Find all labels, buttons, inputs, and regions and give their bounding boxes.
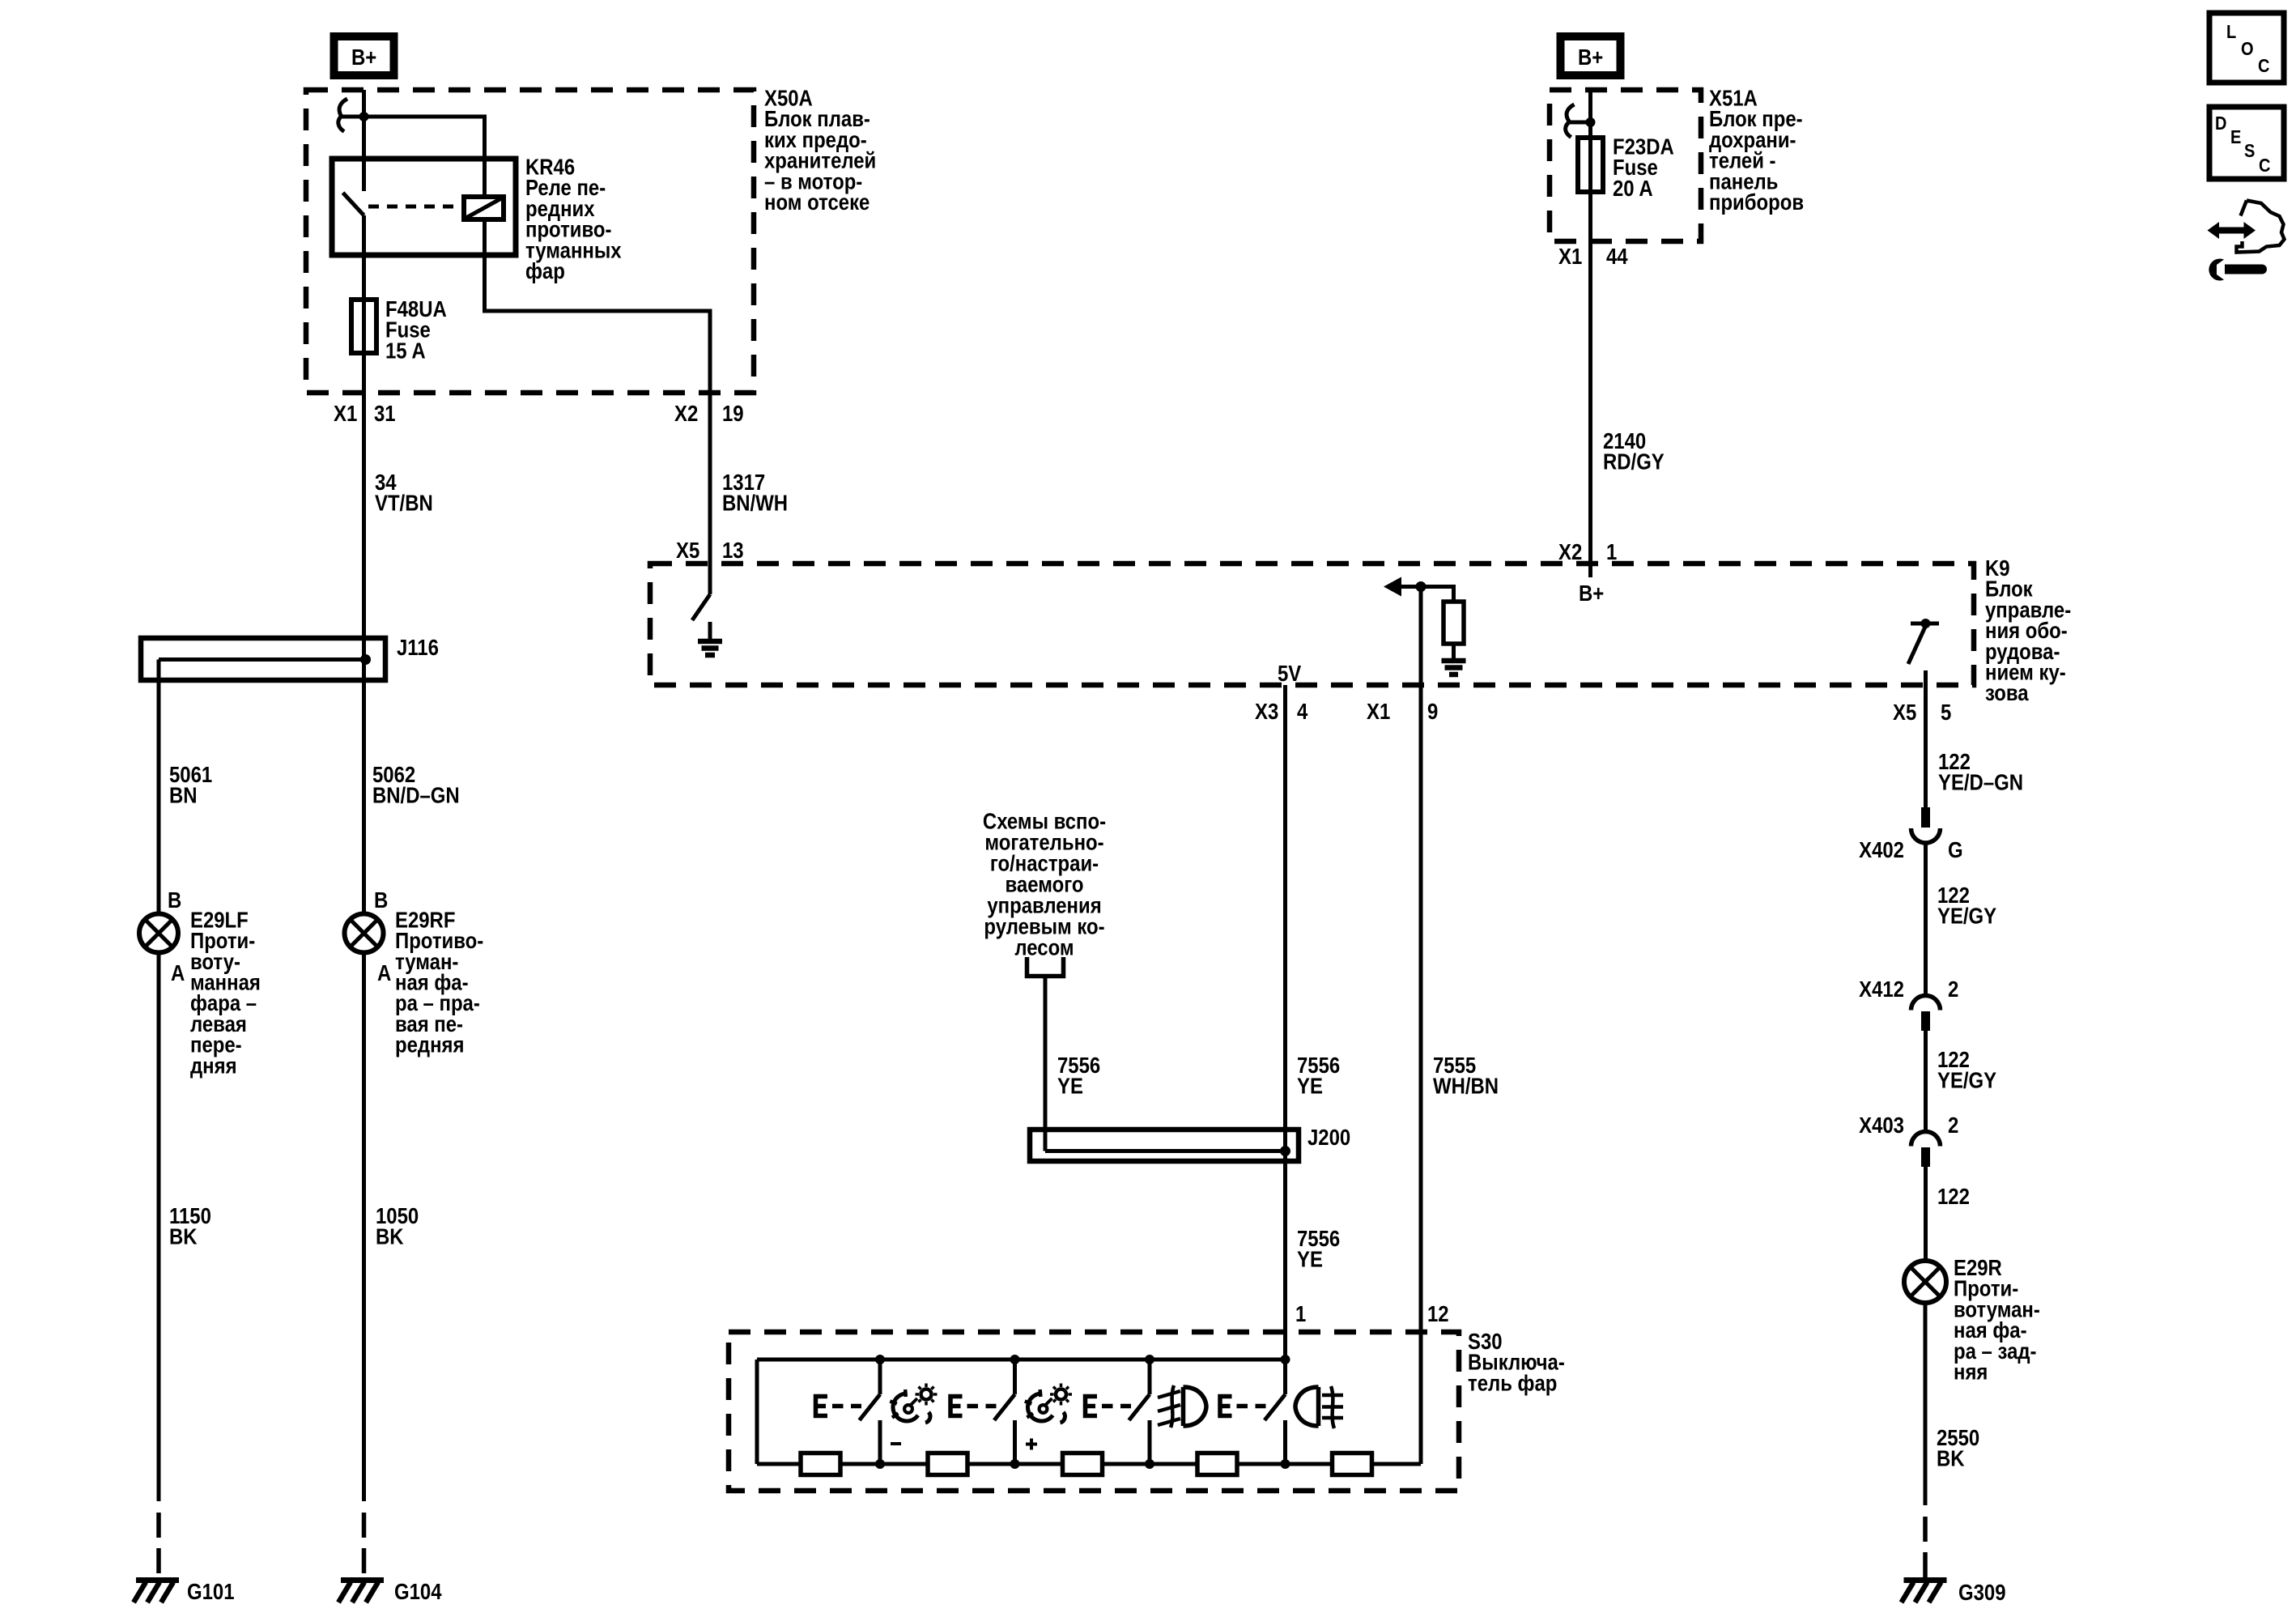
clip tick to wire [1567,121,1591,125]
pin 12 (S30) [1427,1303,1449,1327]
wire 122 [1924,1167,1928,1261]
wire 5061 BN [157,660,161,914]
wire dashed tail to G309 [1923,1517,1928,1579]
wire label 7555 WH/BN [1433,1054,1499,1100]
svg-text:13: 13 [722,539,744,564]
relay KR46 coil [464,197,504,219]
wire 34 VT/BN [362,393,366,638]
svg-text:4: 4 [1297,700,1308,725]
headlamp switch S30 (dashed box) [729,1332,1459,1491]
switch to ground inside K9 (left) [692,564,710,620]
wrench icon [2209,259,2267,281]
plus label [1026,1439,1037,1450]
connector X412 [1911,996,1941,1032]
svg-text:B: B [168,889,181,913]
svg-text:G309: G309 [1958,1581,2006,1606]
wire label 2140 RD/GY [1603,430,1665,475]
node J116 junction [360,654,371,665]
lamp E29RF [345,914,384,953]
node J200 junction [1280,1146,1290,1156]
wire relay to fuse F48UA [362,215,366,393]
node bottom bus 1 [875,1459,885,1469]
pin A (E29RF) [377,962,391,986]
dimmer icon (cell 2) [1025,1384,1072,1423]
relay KR46 mechanical link (dashed) [368,205,463,209]
wire 1050 BK [362,953,366,1502]
connector clip at X51A entry [1566,104,1575,138]
steering wheel controls note [983,810,1106,960]
wire 2140 RD/GY [1588,241,1592,577]
switch S30-1 [860,1360,881,1464]
KR46 label [525,155,622,283]
minus label [891,1442,901,1445]
lamp E29R [1904,1261,1946,1303]
svg-text:B: B [374,889,388,913]
svg-text:A: A [377,962,391,986]
X51A label [1709,87,1804,215]
X412 label [1859,978,1958,1002]
wire relay coil to X2 19 [485,219,711,393]
off-page connector bracket [1027,957,1064,977]
svg-text:X5: X5 [676,539,699,564]
X402 label [1859,839,1962,863]
connector clip at X50A entry [338,99,347,132]
node bottom bus 4 [1281,1459,1290,1469]
wire 7556 YE (from X3 4) [1283,685,1287,1360]
svg-text:L: L [2226,21,2236,43]
relay KR46 (box) [332,159,516,255]
node bottom bus 3 [1145,1459,1154,1469]
wire 5062 BN/D-GN [362,638,366,914]
node junction to relay coil [359,112,369,121]
resistor S30 r5 [1333,1453,1372,1475]
splice J200 bus [1045,1149,1286,1153]
pin X1 9 [1367,700,1438,725]
svg-text:B+: B+ [351,46,376,70]
resistor S30 r2 [928,1453,967,1475]
body control module K9 (dashed box) [650,564,1974,685]
svg-text:44: 44 [1606,245,1628,270]
fuse F48UA [351,300,376,353]
svg-text:9: 9 [1427,700,1438,725]
S30 label [1468,1330,1565,1396]
lamp E29LF [139,914,178,953]
S30 top bus [757,1358,1286,1362]
battery feed B+ (right) [1561,36,1621,75]
resistor (pull-up to ground) inside K9 [1444,587,1464,645]
wire label 122 [1937,1185,1970,1210]
F48UA label [385,298,447,364]
svg-text:X1: X1 [1558,245,1582,270]
svg-text:A: A [171,962,185,986]
wire label 7556 YE (below J200) [1297,1228,1340,1273]
ground (inside K9 left) [698,622,722,655]
svg-text:C: C [2258,55,2269,77]
wire dashed tail to G101 [156,1513,161,1579]
wire 122 YE/GY (lower) [1924,1031,1928,1132]
wire K9 switch to X5 5 [1924,670,1928,685]
relay KR46 switch contact [343,159,364,215]
S30 left side wire [755,1360,759,1464]
svg-text:X412: X412 [1859,978,1904,1002]
K9 label [1985,557,2071,706]
wire 1317 BN/WH [708,393,712,594]
ground G101 [134,1581,179,1603]
node at K9 right switch [1921,619,1931,628]
vehicle orientation icon [2208,201,2285,253]
wire branch to relay coil [341,117,485,197]
svg-text:C: C [2259,155,2270,177]
wire label 122 YE/D-GN [1938,751,2023,796]
wire label 122 YE/GY (upper) [1937,884,1996,930]
connector X403 [1911,1132,1941,1167]
svg-text:X1: X1 [1367,700,1390,725]
pin A (E29LF) [171,962,185,986]
svg-text:D: D [2215,113,2226,134]
pin X2 19 [674,402,744,427]
G309 label [1958,1581,2006,1606]
svg-text:G104: G104 [394,1581,442,1605]
front fog lamp icon (cell 4) [1158,1385,1206,1428]
svg-text:E: E [2230,126,2241,148]
splice J116 bus [159,657,366,662]
svg-text:S: S [2244,140,2255,162]
switch output inside K9 (right) [1908,623,1939,664]
svg-text:2: 2 [1948,1114,1958,1138]
J200 label [1307,1126,1350,1151]
fuse block X50A (dashed box) [306,90,754,393]
svg-text:122: 122 [1937,1185,1970,1210]
E29R label [1954,1257,2040,1385]
resistor S30 r1 [801,1453,840,1475]
splice J116 (box) [141,638,385,680]
pin X1 31 [334,402,396,427]
connector X402 [1911,807,1941,843]
node top bus 4 [1281,1355,1290,1364]
LOC reference box [2209,13,2284,83]
switch S30-2 [994,1360,1015,1464]
node top bus 3 [1145,1355,1154,1364]
wire B+ to relay (vertical) [362,90,366,159]
X50A label [764,87,876,215]
net label 5V [1278,662,1302,687]
pin X3 4 [1255,700,1308,725]
DESC reference box [2209,107,2284,179]
wire label 7556 YE (middle) [1297,1054,1340,1100]
pin X2 1 [1558,541,1617,565]
svg-text:2: 2 [1948,978,1958,1002]
J116 label [397,636,439,661]
S30 bottom bus [757,1462,1421,1466]
svg-text:19: 19 [722,402,744,427]
battery feed B+ (left) [334,36,394,75]
wire pin 12 drop [1419,1332,1423,1464]
svg-text:J116: J116 [397,636,439,661]
pin B (E29LF) [168,889,181,913]
wire 122 YE/GY (upper) [1924,843,1928,996]
svg-text:X3: X3 [1255,700,1278,725]
svg-text:X402: X402 [1859,839,1904,863]
svg-text:12: 12 [1427,1303,1449,1327]
svg-text:31: 31 [374,402,396,427]
node arrow/resistor junction [1416,581,1426,592]
wire 2550 BK [1924,1303,1928,1505]
svg-text:5V: 5V [1278,662,1302,687]
rear fog lamp icon (cell 5) [1295,1386,1343,1428]
actuator E dashed (cell 1) [816,1397,862,1416]
pin X5 13 [676,539,744,564]
wire 1150 BK [157,953,161,1502]
E29LF label [190,908,261,1079]
svg-text:5: 5 [1941,701,1951,726]
switch S30-3 [1129,1360,1150,1464]
svg-text:X403: X403 [1859,1114,1904,1138]
ground G104 [338,1581,384,1603]
svg-text:B+: B+ [1579,582,1604,606]
svg-text:X5: X5 [1893,701,1916,726]
svg-text:O: O [2241,38,2254,60]
wire label 7556 YE (left) [1057,1054,1100,1100]
X403 label [1859,1114,1958,1138]
resistor S30 r4 [1197,1453,1237,1475]
svg-text:X2: X2 [674,402,698,427]
G101 label [187,1581,235,1605]
node bottom bus 2 [1010,1459,1020,1469]
pin X1 44 [1558,245,1628,270]
pin 1 (S30) [1295,1303,1306,1327]
wire B+ through fuse F23DA [1588,90,1592,241]
E29RF label [395,908,483,1057]
wire label 34 VT/BN [375,471,433,517]
F23DA label [1613,135,1674,201]
wire dashed tail to G104 [362,1513,367,1579]
node top bus 1 [875,1355,885,1364]
svg-text:G: G [1948,839,1963,863]
switch S30-4 [1265,1360,1286,1464]
wire 122 YE/D-GN [1924,685,1928,807]
wire label 1050 BK [376,1205,419,1250]
fuse block X51A (dashed box) [1550,90,1701,241]
wire 7556 YE (from steering controls) [1044,977,1048,1151]
svg-text:B+: B+ [1578,46,1603,70]
actuator E dashed (cell 4) [1220,1397,1266,1416]
net label B+ inside K9 [1579,582,1604,606]
svg-text:G101: G101 [187,1581,235,1605]
wire 7555 WH/BN (from X1 9) [1419,587,1423,1465]
svg-text:X1: X1 [334,402,357,427]
ground G309 [1902,1581,1947,1603]
wire label 2550 BK [1937,1427,1979,1472]
wire label 122 YE/GY (lower) [1937,1049,1996,1094]
wire label 1317 BN/WH [722,471,788,517]
signal arrow inside K9 [1384,577,1456,597]
G104 label [394,1581,442,1605]
wire label 1150 BK [169,1205,211,1250]
dimmer icon (cell 1) [890,1384,937,1423]
actuator E dashed (cell 2) [950,1397,997,1416]
svg-text:1: 1 [1295,1303,1306,1327]
wire label 5061 BN [169,764,212,809]
wire label 5062 BN/D-GN [372,764,460,809]
splice J200 (box) [1030,1130,1299,1161]
node top bus 2 [1010,1355,1020,1364]
node at F23DA feed [1586,117,1596,127]
svg-text:J200: J200 [1307,1126,1350,1151]
actuator E dashed (cell 3) [1086,1397,1132,1416]
ground (inside K9 right) [1442,644,1466,674]
fuse F23DA [1578,138,1603,192]
pin B (E29RF) [374,889,388,913]
pin X5 5 [1893,701,1951,726]
resistor S30 r3 [1063,1453,1103,1475]
